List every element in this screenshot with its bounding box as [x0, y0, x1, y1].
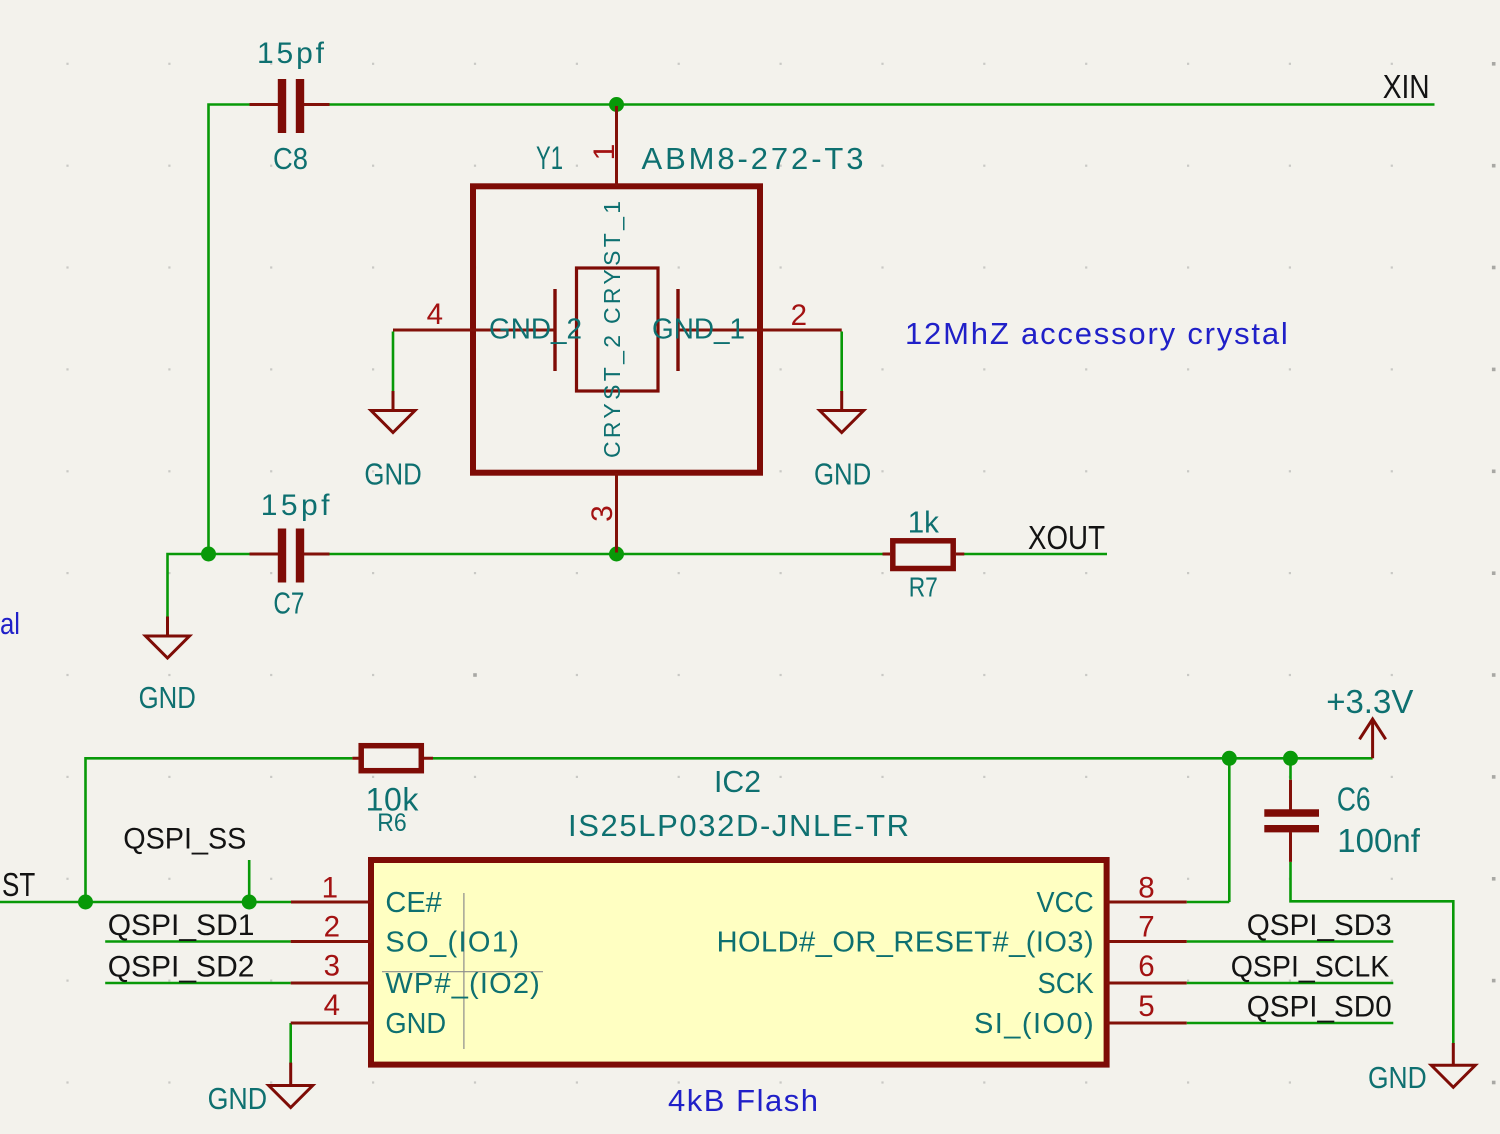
svg-text:IC2: IC2: [714, 764, 761, 799]
svg-text:15pf: 15pf: [261, 489, 330, 522]
svg-text:4kB Flash: 4kB Flash: [668, 1083, 818, 1118]
svg-text:QSPI_SD0: QSPI_SD0: [1247, 991, 1392, 1024]
svg-text:ABM8-272-T3: ABM8-272-T3: [642, 141, 864, 176]
svg-text:QSPI_SD3: QSPI_SD3: [1247, 909, 1392, 942]
svg-text:ST: ST: [2, 866, 35, 903]
svg-text:C8: C8: [273, 141, 308, 176]
svg-text:12MhZ accessory crystal: 12MhZ accessory crystal: [905, 316, 1288, 351]
svg-text:2: 2: [324, 910, 340, 943]
svg-text:QSPI_SD1: QSPI_SD1: [108, 909, 255, 942]
svg-text:XOUT: XOUT: [1028, 519, 1105, 556]
svg-text:SO_(IO1): SO_(IO1): [385, 927, 519, 959]
svg-text:+3.3V: +3.3V: [1326, 683, 1413, 720]
svg-text:1k: 1k: [908, 505, 940, 540]
svg-text:CE#: CE#: [385, 887, 441, 919]
svg-text:1: 1: [322, 871, 338, 904]
svg-text:QSPI_SS: QSPI_SS: [123, 823, 246, 856]
svg-text:5: 5: [1138, 990, 1154, 1023]
svg-text:IS25LP032D-JNLE-TR: IS25LP032D-JNLE-TR: [568, 808, 909, 843]
svg-text:GND: GND: [1368, 1060, 1427, 1095]
svg-text:7: 7: [1138, 911, 1154, 944]
svg-text:6: 6: [1138, 950, 1154, 983]
svg-text:SI_(IO0): SI_(IO0): [974, 1008, 1094, 1040]
svg-text:4: 4: [427, 298, 443, 331]
svg-text:3: 3: [586, 505, 619, 522]
svg-text:15pf: 15pf: [257, 37, 325, 70]
svg-text:CRYST_1: CRYST_1: [599, 201, 625, 324]
svg-text:GND_1: GND_1: [652, 314, 745, 346]
svg-text:QSPI_SD2: QSPI_SD2: [108, 951, 255, 984]
svg-text:SCK: SCK: [1038, 968, 1095, 1000]
svg-text:al: al: [0, 606, 20, 641]
svg-text:GND: GND: [814, 456, 871, 491]
svg-text:CRYST_2: CRYST_2: [599, 335, 625, 458]
svg-text:Y1: Y1: [536, 140, 563, 176]
svg-text:1: 1: [588, 144, 621, 161]
svg-text:8: 8: [1138, 871, 1154, 904]
svg-text:100nf: 100nf: [1337, 822, 1420, 859]
svg-text:HOLD#_OR_RESET#_(IO3): HOLD#_OR_RESET#_(IO3): [717, 927, 1094, 959]
svg-text:GND: GND: [139, 680, 196, 715]
svg-text:VCC: VCC: [1037, 887, 1094, 919]
svg-text:GND: GND: [208, 1081, 268, 1116]
svg-text:QSPI_SCLK: QSPI_SCLK: [1231, 951, 1390, 984]
svg-text:GND: GND: [385, 1008, 446, 1040]
svg-text:4: 4: [324, 989, 340, 1022]
svg-text:GND: GND: [364, 456, 421, 491]
svg-text:GND_2: GND_2: [489, 314, 582, 346]
svg-text:R7: R7: [909, 572, 938, 603]
svg-text:3: 3: [324, 950, 340, 983]
svg-text:C7: C7: [273, 586, 304, 621]
svg-text:WP#_(IO2): WP#_(IO2): [385, 968, 539, 1000]
svg-text:R6: R6: [377, 809, 406, 837]
svg-text:XIN: XIN: [1383, 68, 1430, 105]
svg-text:2: 2: [791, 299, 807, 332]
svg-text:C6: C6: [1337, 781, 1371, 818]
